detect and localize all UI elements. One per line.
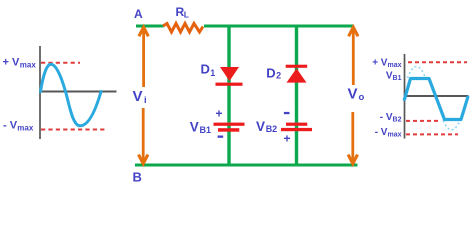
svg-text:B1: B1 (200, 125, 212, 135)
input label -Vmax (3, 120, 34, 133)
svg-text:L: L (184, 10, 189, 20)
battery VB1 plus terminal (216, 107, 223, 121)
output -VB2 dashed level line (406, 120, 441, 122)
input waveform horizontal axis (39, 91, 117, 93)
svg-text:A: A (134, 7, 143, 21)
battery VB2 plus terminal (284, 132, 291, 146)
resistor RL (163, 24, 203, 33)
svg-text:B: B (133, 170, 142, 185)
input sine wave (41, 64, 102, 126)
svg-text:o: o (359, 92, 365, 103)
output label -Vmax (375, 127, 402, 139)
svg-text:+ V: + V (3, 57, 20, 69)
label VB2 (256, 119, 277, 134)
node B (133, 170, 142, 185)
Vi down arrow (139, 108, 148, 164)
output waveform vertical axis (404, 54, 406, 139)
label D2 (266, 66, 281, 81)
output clipped trough dotted arc bottom (443, 121, 460, 130)
label Vo (348, 86, 365, 104)
svg-text:1: 1 (210, 68, 215, 78)
label Vi (133, 88, 147, 106)
wire D2 branch vertical (295, 26, 298, 165)
wire top segment RL to right end (204, 25, 354, 28)
output +Vmax dashed level line (408, 61, 467, 63)
svg-text:V: V (348, 86, 358, 103)
svg-text:max: max (17, 124, 34, 133)
label D1 (201, 62, 216, 79)
input label +Vmax (3, 57, 37, 70)
Vo down arrow (348, 112, 357, 164)
svg-text:V: V (190, 120, 199, 135)
output clipped waveform (404, 79, 467, 120)
svg-text:- V: - V (3, 120, 18, 132)
svg-text:- VB2: - VB2 (380, 112, 402, 124)
input +Vmax dashed level line (41, 62, 80, 64)
output -Vmax dashed level line (406, 133, 458, 135)
battery VB1 minus terminal (218, 136, 224, 138)
svg-text:+: + (284, 132, 291, 146)
input waveform vertical axis (39, 46, 41, 139)
wire D1 branch vertical (227, 26, 230, 165)
node A (134, 7, 143, 21)
label RL (176, 5, 190, 20)
battery VB1 (214, 123, 245, 132)
svg-text:i: i (144, 95, 147, 106)
label VB1 (190, 120, 211, 135)
diode D2 (286, 65, 308, 83)
output label VB1 (386, 71, 402, 83)
svg-text:+: + (216, 107, 223, 121)
svg-text:VB1: VB1 (386, 71, 402, 83)
Vi up arrow (139, 27, 148, 87)
svg-text:- Vmax: - Vmax (375, 127, 402, 139)
svg-text:V: V (256, 119, 265, 134)
output clipped peak dotted arc top (408, 67, 426, 79)
svg-text:max: max (20, 61, 37, 70)
svg-text:+ Vmax: + Vmax (372, 58, 401, 70)
svg-text:B2: B2 (266, 124, 278, 134)
svg-text:D: D (266, 66, 275, 81)
battery VB2 minus terminal (284, 112, 290, 114)
input -Vmax dashed level line (41, 129, 106, 131)
output waveform horizontal axis (404, 95, 469, 97)
Vo up arrow (349, 27, 358, 85)
svg-text:V: V (133, 88, 143, 105)
output label -VB2 (380, 112, 402, 124)
wire top-left segment A to RL (136, 25, 164, 28)
output label +Vmax (372, 58, 401, 70)
svg-text:2: 2 (276, 71, 281, 81)
svg-text:D: D (201, 62, 210, 77)
wire bottom segment B to right end (135, 164, 358, 167)
diode D1 (216, 67, 243, 86)
battery VB2 (281, 123, 312, 132)
